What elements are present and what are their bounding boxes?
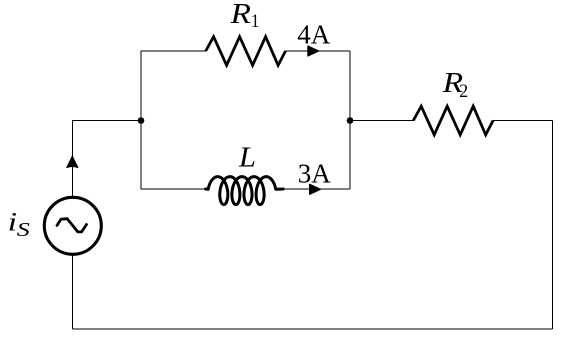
wire: left parallel branch vertical (140, 51, 142, 189)
svg-text:L: L (238, 142, 256, 173)
svg-text:1: 1 (251, 12, 260, 32)
svg-text:S: S (17, 219, 30, 241)
wire: bottom branch right segment (283, 188, 350, 190)
arrow: source current direction (up) (67, 157, 78, 168)
current source iS (AC source circle) (44, 197, 101, 254)
svg-text:4A: 4A (297, 19, 331, 49)
node B (right junction dot) (347, 117, 354, 124)
resistor R2 (413, 106, 493, 135)
sine wave inside source (57, 219, 87, 232)
wire: R2 to top-right corner (493, 120, 552, 122)
wire: top branch left segment (141, 50, 206, 52)
wire: bottom branch left segment (141, 188, 206, 190)
wire: source bottom lead down to bottom rail (72, 255, 74, 329)
wire: right parallel branch vertical (349, 51, 351, 189)
arrow: 4A current direction (308, 46, 319, 56)
svg-text:R: R (229, 0, 251, 30)
inductor L (coil) (206, 177, 284, 205)
node A (left junction dot) (138, 117, 145, 124)
arrow: 3A current direction (310, 184, 321, 194)
wire: node B to R2 (350, 120, 414, 122)
resistor R1 (206, 37, 286, 66)
svg-text:2: 2 (459, 82, 468, 102)
svg-text:3A: 3A (298, 159, 332, 189)
wire: bottom return rail (73, 328, 553, 330)
svg-text:i: i (8, 208, 18, 237)
wire: right side vertical (552, 121, 554, 330)
wire: source top lead up and over to node A (73, 121, 142, 197)
wire: top branch right segment (286, 50, 351, 52)
